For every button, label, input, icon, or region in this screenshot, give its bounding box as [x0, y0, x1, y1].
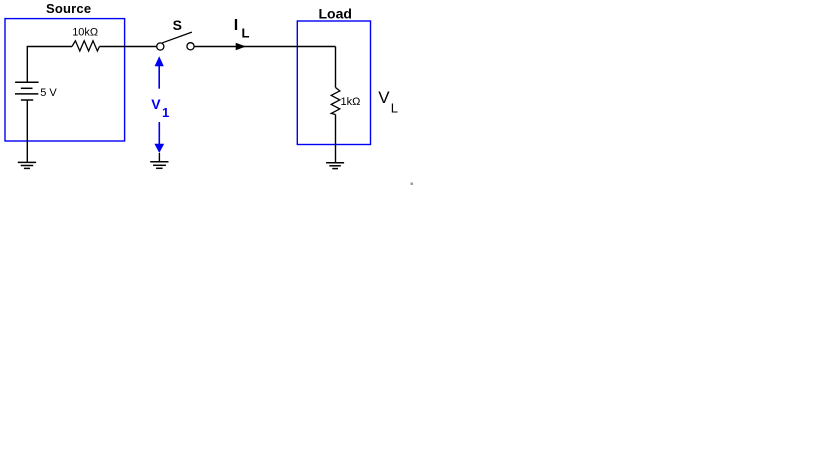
label V_1 [151, 96, 169, 120]
label 5 V [40, 87, 57, 99]
current arrow IL [236, 43, 246, 51]
svg-text:V: V [151, 96, 161, 112]
ground (V1 probe) [150, 162, 168, 169]
voltage arrow V1 (up head) [155, 56, 164, 88]
load box [297, 21, 370, 145]
voltage arrow V1 (down head) [154, 122, 164, 153]
wire load down to resistor [335, 47, 337, 88]
svg-text:S: S [173, 17, 182, 33]
label 1kΩ [341, 96, 361, 108]
svg-text:Load: Load [319, 6, 352, 22]
label 10kΩ [72, 26, 98, 38]
label Source [46, 1, 91, 16]
svg-text:I: I [234, 17, 238, 34]
wire resistor to load ground [335, 115, 337, 163]
svg-text:1: 1 [162, 105, 169, 120]
ground (source) [18, 162, 36, 168]
svg-text:1kΩ: 1kΩ [341, 96, 361, 108]
label Load [319, 6, 352, 22]
svg-text:5 V: 5 V [40, 87, 57, 99]
svg-text:L: L [391, 101, 398, 116]
source box [5, 19, 125, 141]
svg-text:L: L [242, 25, 250, 40]
svg-text:V: V [378, 88, 390, 107]
wire battery to source ground [26, 100, 28, 162]
resistor R2 1k zigzag [331, 88, 340, 115]
wire battery-top to resistor [27, 47, 72, 83]
label S [173, 17, 182, 33]
svg-text:10kΩ: 10kΩ [72, 26, 98, 38]
stray mark [411, 183, 414, 186]
wire switch to load [194, 46, 335, 48]
switch S [157, 32, 194, 50]
battery B1 [15, 82, 39, 100]
svg-text:Source: Source [46, 1, 91, 16]
label V_L [378, 88, 398, 116]
wire arrow tip to probe ground [158, 153, 160, 162]
resistor R1 10k zigzag [72, 41, 99, 51]
label I_L [234, 17, 250, 40]
wire resistor to switch [99, 46, 156, 48]
ground (load) [326, 163, 344, 169]
